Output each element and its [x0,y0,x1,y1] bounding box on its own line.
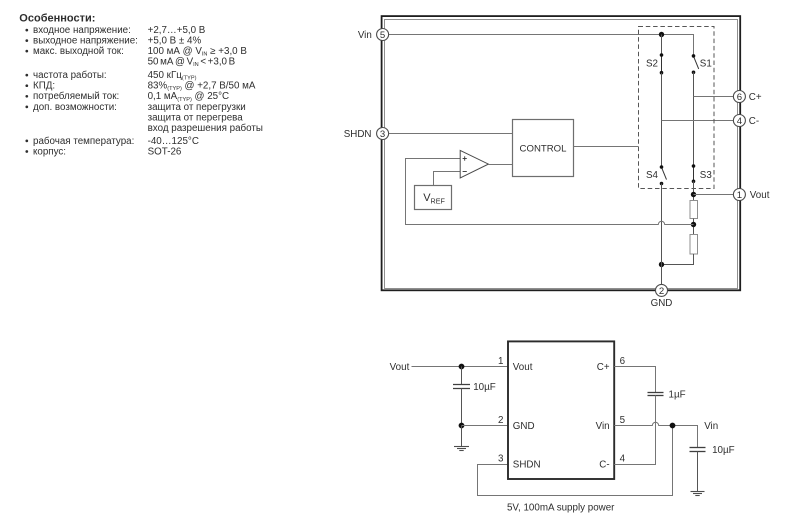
svg-text:6: 6 [620,356,626,367]
svg-text:5: 5 [380,30,385,41]
resistor R1 [690,201,698,219]
svg-text:-40…125°C: -40…125°C [148,136,199,147]
pin labels inside [513,362,610,471]
wire GND pin2 lead [462,425,509,427]
pin 5 Vin [377,29,389,41]
switch S3 (closed) [692,164,696,183]
svg-text:C-: C- [749,116,759,127]
svg-text:4: 4 [737,116,743,127]
comparator U1 [460,150,488,178]
wire Vout lead [412,366,509,368]
svg-text:SHDN: SHDN [513,460,541,471]
wire Vin pin5 to switch network [389,35,694,56]
wire C- [662,120,734,122]
svg-text:потребляемый ток:: потребляемый ток: [33,91,119,102]
svg-text:+5,0 В ± 4%: +5,0 В ± 4% [148,36,202,47]
wire S2 column down to S4 [661,73,663,167]
wire cap to ground [697,452,699,492]
svg-text:S3: S3 [700,170,713,181]
node GND junction dot [659,262,664,267]
svg-text:Vout: Vout [750,190,770,201]
wire comparator output to control [488,164,512,166]
pin 2 GND [656,284,668,296]
wire Vref to comparator inverting input [434,172,461,186]
svg-text:Vin: Vin [358,30,372,41]
ground symbol left [454,447,469,451]
resistor R2 [690,235,698,255]
svg-text:10µF: 10µF [712,445,735,456]
IC outer border (thick) [382,16,741,290]
feature value column [148,25,263,157]
wire S3 to Vout node [693,181,695,200]
wire feedback from divider to comparator [406,159,694,225]
svg-text:+2,7…+5,0 В: +2,7…+5,0 В [148,25,206,36]
wire down to ground [461,426,463,447]
wire SHDN pin3 to control [389,133,513,135]
wire C+ pin6 to flying cap [614,367,655,393]
svg-text:макс. выходной ток:: макс. выходной ток: [33,46,124,57]
svg-text:Vout: Vout [513,362,533,373]
svg-text:C+: C+ [749,92,762,103]
wire Vin pin5 with hop over cap wire [614,422,697,447]
svg-text:3: 3 [380,129,385,140]
wire control to switch network [574,146,639,148]
wire S2 column upper [661,35,663,56]
node Vin junction dot [659,32,664,37]
svg-text:корпус:: корпус: [33,146,66,157]
switch S2 (closed) [660,53,664,74]
svg-text:1µF: 1µF [669,390,686,401]
node Vin junction dot [670,423,676,429]
feature label column [33,25,138,157]
IC package box [508,341,614,479]
svg-text:GND: GND [513,421,535,432]
svg-text:4: 4 [620,454,626,465]
pin 4 C- [733,115,745,127]
svg-text:доп. возможности:: доп. возможности: [33,102,117,113]
switch S4 (open) [660,165,667,185]
svg-text:3: 3 [498,454,504,465]
IC inner border (thin) [385,20,738,289]
wire SHDN pin3 supply loop [478,426,673,496]
svg-text:S2: S2 [646,58,658,69]
svg-text:2: 2 [659,286,664,297]
node gnd junction dot [459,423,465,429]
svg-text:Особенности:: Особенности: [19,13,95,25]
svg-text:защита от перегрева: защита от перегрева [148,112,244,123]
pin 6 C+ [733,91,745,103]
svg-text:5V, 100mA supply power: 5V, 100mA supply power [507,503,615,514]
svg-text:Vin: Vin [596,421,610,432]
svg-text:GND: GND [651,298,673,309]
svg-text:C+: C+ [597,362,610,373]
svg-text:рабочая температура:: рабочая температура: [33,136,134,147]
svg-text:CONTROL: CONTROL [520,143,568,154]
wire flying cap to C- pin4 [614,396,655,465]
capacitor C3 10uF [690,447,706,449]
svg-text:Vout: Vout [390,362,410,373]
svg-text:вход разрешения работы: вход разрешения работы [148,123,263,134]
wire GND column [661,184,663,285]
wire C+ [694,96,734,98]
switch network dashed box [639,27,715,189]
node feedback junction dot [691,222,696,227]
svg-text:выходное напряжение:: выходное напряжение: [33,36,138,47]
node output junction dot [459,364,465,370]
wire S1 column down to C+ tee and on to S3 [693,72,695,166]
svg-text:S1: S1 [700,58,712,69]
pin 1 Vout [733,189,745,201]
svg-text:1: 1 [737,190,742,201]
svg-text:C-: C- [599,460,609,471]
wire R1 to R2 [693,219,695,235]
svg-text:частота работы:: частота работы: [33,70,107,81]
svg-text:SOT-26: SOT-26 [148,146,182,157]
svg-text:5: 5 [620,415,626,426]
switch S1 (open) [692,54,699,74]
wire Vout [694,194,734,196]
svg-text:2: 2 [498,415,503,426]
node Vout junction dot [691,192,696,197]
svg-text:50 мА @ VIN < +3,0 В: 50 мА @ VIN < +3,0 В [148,57,236,69]
svg-text:S4: S4 [646,170,659,181]
feature bullets [25,29,28,153]
pin numbers right [620,356,626,465]
svg-text:10µF: 10µF [473,382,496,393]
svg-text:КПД:: КПД: [33,81,55,92]
capacitor C1 1uF [648,392,664,394]
svg-text:защита от перегрузки: защита от перегрузки [148,102,246,113]
pin 3 SHDN [377,128,389,140]
ground symbol right [691,492,705,496]
svg-text:6: 6 [737,92,742,103]
pin numbers left [498,356,504,465]
svg-text:входное напряжение:: входное напряжение: [33,25,131,36]
wire R2 bottom to GND column [662,254,694,265]
CONTROL block [513,120,574,177]
svg-text:Vin: Vin [704,421,718,432]
svg-text:SHDN: SHDN [344,129,372,140]
Vref box [415,186,452,210]
capacitor C2 10uF [461,367,463,385]
svg-text:1: 1 [498,356,503,367]
